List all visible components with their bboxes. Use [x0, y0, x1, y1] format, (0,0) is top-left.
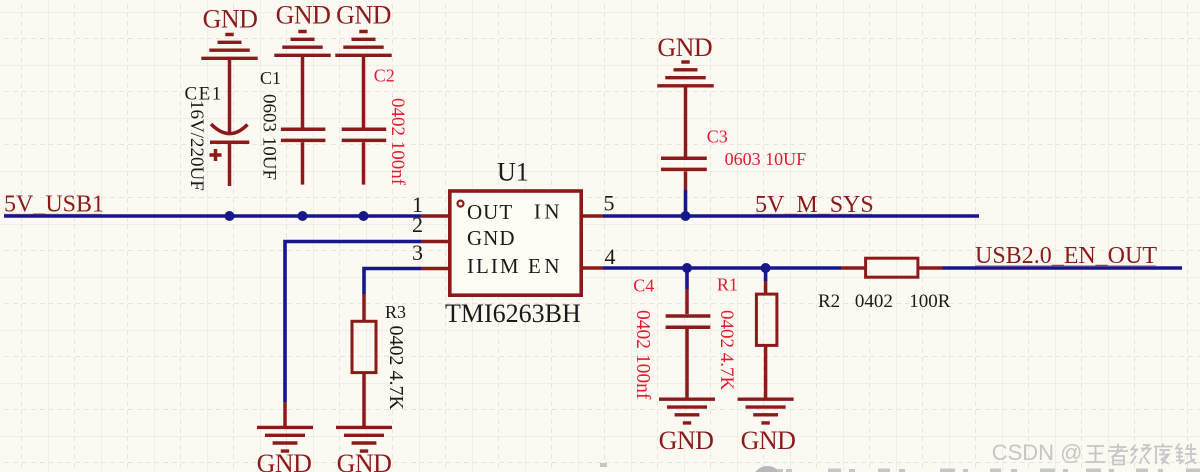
svg-text:GND: GND: [467, 226, 516, 250]
svg-text:IN: IN: [534, 200, 563, 224]
svg-text:GND: GND: [659, 426, 714, 455]
svg-text:0402 100nf: 0402 100nf: [632, 310, 653, 400]
svg-text:ILIM: ILIM: [467, 254, 521, 278]
svg-text:TMI6263BH: TMI6263BH: [445, 299, 581, 328]
svg-text:0402 4.7K: 0402 4.7K: [716, 310, 737, 391]
svg-text:GND: GND: [336, 0, 391, 29]
svg-text:C1: C1: [260, 68, 281, 88]
svg-text:C2: C2: [374, 65, 395, 85]
svg-text:GND: GND: [203, 5, 258, 34]
svg-text:GND: GND: [657, 33, 712, 62]
svg-text:0603 10UF: 0603 10UF: [259, 94, 280, 180]
svg-text:2: 2: [412, 212, 423, 237]
svg-text:3: 3: [412, 240, 423, 265]
svg-text:0402: 0402: [855, 291, 893, 312]
svg-text:R1: R1: [717, 275, 738, 295]
svg-text:EN: EN: [528, 254, 563, 278]
svg-text:CSDN @: CSDN @: [992, 440, 1083, 465]
svg-text:5: 5: [604, 191, 615, 216]
svg-text:16V/220UF: 16V/220UF: [186, 100, 207, 191]
svg-text:R2: R2: [818, 291, 840, 312]
svg-text:U1: U1: [497, 158, 529, 187]
svg-text:0603 10UF: 0603 10UF: [725, 149, 807, 169]
svg-text:C3: C3: [707, 126, 728, 146]
svg-text:GND: GND: [257, 449, 312, 472]
svg-text:GND: GND: [741, 426, 796, 455]
svg-text:100R: 100R: [909, 291, 951, 312]
svg-text:0402 4.7K: 0402 4.7K: [385, 326, 407, 411]
svg-text:C4: C4: [633, 276, 654, 296]
svg-text:R3: R3: [385, 302, 406, 322]
svg-text:GND: GND: [337, 449, 392, 472]
svg-text:0402 100nf: 0402 100nf: [387, 98, 408, 186]
svg-text:4: 4: [605, 244, 616, 269]
svg-text:OUT: OUT: [467, 200, 513, 224]
svg-text:GND: GND: [276, 0, 331, 29]
